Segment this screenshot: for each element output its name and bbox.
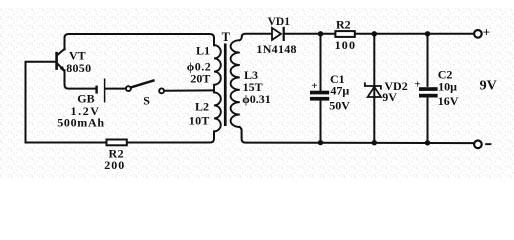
svg-text:+: + (311, 80, 317, 92)
svg-text:10μ: 10μ (438, 80, 457, 94)
svg-text:500mAh: 500mAh (57, 116, 105, 130)
svg-text:L2: L2 (195, 100, 209, 114)
svg-text:100: 100 (335, 38, 357, 52)
svg-text:8050: 8050 (66, 61, 91, 75)
svg-text:200: 200 (104, 158, 125, 172)
svg-text:10T: 10T (189, 114, 210, 128)
svg-text:VD1: VD1 (268, 16, 291, 28)
svg-text:L1: L1 (196, 44, 210, 58)
svg-text:ϕ0.31: ϕ0.31 (242, 92, 270, 106)
svg-text:R2: R2 (336, 18, 351, 32)
svg-text:+: + (414, 79, 420, 91)
svg-text:50V: 50V (329, 98, 350, 112)
svg-text:9V: 9V (382, 90, 397, 104)
svg-text:T: T (222, 30, 231, 44)
svg-text:S: S (143, 93, 150, 107)
svg-text:9V: 9V (480, 78, 497, 93)
svg-text:+: + (483, 24, 490, 39)
svg-text:1N4148: 1N4148 (256, 42, 296, 56)
svg-text:16V: 16V (438, 94, 459, 108)
svg-text:20T: 20T (190, 72, 210, 86)
svg-text:47μ: 47μ (330, 84, 349, 98)
svg-text:VT: VT (69, 48, 86, 62)
